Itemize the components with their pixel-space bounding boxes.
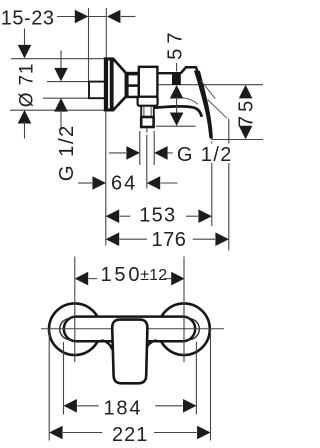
dim 64 line left (78, 182, 92, 184)
svg-text:153: 153 (139, 205, 176, 227)
outlet mid inner line left (143, 106, 145, 117)
dim 150 arrow right (171, 272, 185, 286)
dim 176 line right (193, 238, 215, 240)
valve body (139, 67, 158, 97)
dim D71 leader bottom (24, 122, 26, 139)
front left centerline vertical (74, 257, 76, 363)
dim 184 ext line left (63, 342, 65, 415)
dim 15-23 arrow left (75, 10, 89, 24)
dim 150 line right (164, 278, 171, 280)
G12 wall leader top (60, 51, 62, 70)
front horizontal centerline (41, 328, 224, 330)
dim 15-23 ext line wall (105, 8, 107, 58)
G12 wall arrow bottom (54, 98, 68, 112)
dim D71 leader top (24, 29, 26, 48)
svg-text:G 1/2: G 1/2 (55, 124, 78, 181)
svg-text:221: 221 (112, 424, 148, 446)
svg-text:184: 184 (104, 398, 143, 420)
dim 57 bottom ext line (156, 125, 196, 127)
handle far edge line 2 (208, 100, 227, 119)
dim 221 line right (154, 432, 197, 434)
front right centerline vertical (183, 257, 185, 363)
dim 153 arrow left (106, 209, 120, 223)
outlet flange (138, 97, 158, 106)
dim 184 ext line right (195, 342, 197, 415)
svg-text:15-23: 15-23 (1, 8, 55, 30)
outlet centerline stub (146, 128, 148, 132)
dim 150 arrow left (75, 272, 89, 286)
dim 15-23 line right tail (121, 16, 136, 18)
dim 15-23 ext line pipe-end (88, 8, 90, 81)
svg-text:64: 64 (111, 172, 137, 194)
dim 15-23 arrow right (107, 10, 121, 24)
dim 176 arrow left (106, 232, 120, 246)
dim 176 line left (120, 238, 147, 240)
dim 184 arrow left (63, 399, 77, 413)
dim 176 arrow right (215, 232, 229, 246)
escutcheon face plate (104, 58, 113, 112)
handle lever band (194, 71, 213, 139)
svg-text:±12: ±12 (140, 267, 167, 284)
dim 15-23 line mid (89, 16, 107, 18)
union nut (126, 72, 140, 98)
dim 150 line left (89, 278, 97, 280)
escutcheon top ext line (11, 58, 105, 60)
escutcheon side (105, 59, 126, 110)
dim 75 arrow bottom (239, 126, 253, 140)
dim 75 top ext line (158, 84, 263, 86)
dim 184 arrow right (183, 399, 197, 413)
wall nipple (89, 82, 106, 99)
svg-text:176: 176 (152, 229, 187, 251)
dim 176 ext line (228, 119, 230, 251)
dim 184 line right (155, 405, 182, 407)
handle wedge (180, 67, 201, 84)
dim 221 ext line left (48, 330, 50, 441)
handle neck (172, 72, 181, 85)
dim 221 ext line right (210, 330, 212, 441)
outlet axis line (146, 135, 148, 189)
dim 153 line right (186, 215, 198, 217)
dim 75 bottom ext line (211, 139, 263, 141)
dim 221 line left (63, 432, 102, 434)
svg-text:57: 57 (165, 28, 187, 60)
right escutcheon circle (158, 303, 210, 355)
escutcheon bottom ext line (10, 109, 105, 111)
dim 75 arrow top (239, 85, 253, 99)
front body inner arc right (189, 318, 200, 339)
dim 57 line (176, 97, 178, 114)
handle underside edge (154, 106, 202, 116)
union nut window bottom (129, 87, 138, 96)
outlet G12 text mask (196, 144, 236, 164)
handle far edge line 1 (201, 81, 216, 99)
outlet G12 ext line left (139, 131, 141, 165)
outlet G12 line right (168, 152, 173, 154)
svg-text:G 1/2: G 1/2 (177, 144, 233, 166)
nipple top ext line (47, 81, 89, 83)
dim 57 arrow top (170, 85, 184, 99)
left escutcheon circle (49, 303, 101, 355)
dim 221 arrow right (197, 426, 211, 440)
escutcheon face sliver (108, 61, 110, 109)
outlet G12 arrow left (126, 146, 139, 160)
svg-text:150: 150 (101, 264, 143, 286)
dim 153 arrow right (198, 209, 212, 223)
wall plane line (105, 111, 107, 246)
handle underside inner line (183, 98, 198, 105)
front body inner arc left (60, 318, 71, 339)
outlet G12 arrow right (154, 146, 168, 160)
dim 64 arrow right (147, 176, 161, 190)
dim D71 arrow bottom (18, 110, 32, 124)
front handle (112, 320, 147, 384)
svg-text:Ø 71: Ø 71 (17, 63, 38, 107)
cartridge step line (158, 72, 173, 74)
dim 57 leader (176, 63, 178, 72)
dim 64 arrow left (92, 176, 106, 190)
dim 64 line right (161, 182, 178, 184)
nipple bottom ext line (43, 97, 89, 99)
G12 wall leader bottom (60, 110, 62, 130)
svg-text:75: 75 (236, 97, 258, 127)
dim 15-23 line left (57, 16, 75, 18)
outlet square nipple (141, 117, 153, 127)
outlet G12 line left (109, 152, 126, 154)
dim 153 line left (120, 215, 131, 217)
front handle fillet left (102, 340, 113, 349)
dim 221 arrow left (49, 426, 63, 440)
G12 wall arrow top (54, 68, 68, 82)
dim 184 line left (77, 405, 98, 407)
dim 153 ext line (211, 142, 213, 227)
union nut window top (129, 75, 138, 84)
front handle fillet right (146, 340, 157, 349)
dim D71 arrow top (18, 45, 32, 59)
outlet G12 ext line right (153, 131, 155, 165)
outlet mid inner line right (150, 106, 152, 117)
outlet mid (141, 106, 154, 117)
front body capsule (64, 317, 195, 342)
dim 57 arrow bottom (170, 113, 184, 127)
